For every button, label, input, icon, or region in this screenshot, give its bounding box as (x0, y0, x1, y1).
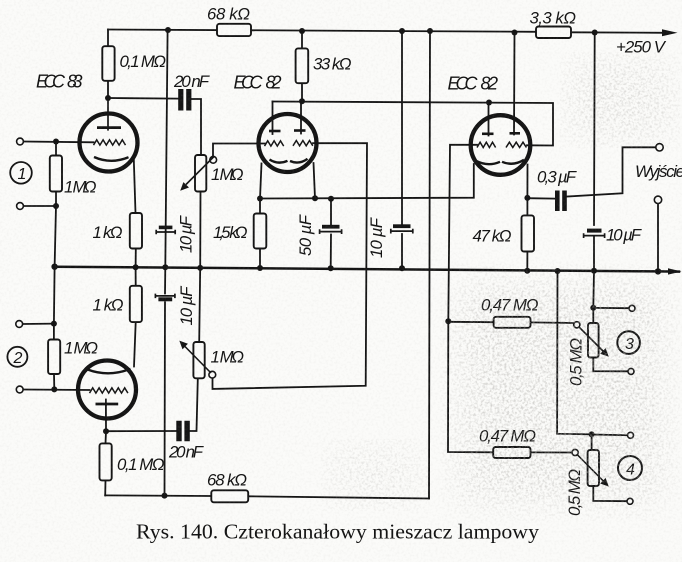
ch1 input terminal bottom (17, 203, 24, 210)
V1 cathode (94, 157, 129, 161)
wire ch2 input bottom to grid V4 (23, 389, 89, 392)
wire V3 right cathode lead (526, 165, 528, 198)
wire ch1 anode coupling: node to 20nF (108, 97, 178, 100)
resistor 0,1M ch1 (102, 46, 114, 81)
junction bus/pot1 (197, 265, 203, 271)
junction bus/1k ch1 (133, 264, 139, 270)
wire output terminal 2 to bus (657, 204, 659, 272)
node channel 3 marker (617, 331, 640, 354)
junction bus/10uF4 (591, 268, 597, 274)
wire riser 0,1M ch1 (107, 30, 109, 47)
jack3 terminal a (629, 305, 635, 311)
V4 anode (96, 399, 119, 406)
wire B+ top rail (108, 30, 536, 32)
wire ch1 input top to grid V1 (24, 141, 94, 144)
wire 1k ch1 to bus (135, 249, 137, 268)
potentiometer 0,5M no.3 body (588, 323, 599, 358)
wire riser tube V3 right anode to rail (513, 33, 516, 135)
resistor 0,47M no.1 (494, 317, 531, 328)
wire V2 left anode lead (272, 102, 274, 135)
wire ch2 input top terminal (23, 323, 54, 325)
wire 33k bottom to anode node (301, 83, 303, 101)
ch2 input terminal top (16, 321, 23, 328)
V3 grids (477, 142, 526, 147)
junction cathode rail/V2 right (312, 195, 318, 201)
junction bus/output (655, 268, 661, 274)
pot1 wiper terminal (210, 156, 217, 163)
junction V3 cathode node (524, 195, 530, 201)
node channel 1 marker (10, 162, 32, 184)
resistor 1,5k (254, 214, 267, 249)
capacitor 10uF no.1 (bracket plate) (156, 230, 175, 235)
wire pot1 bottom to bus (199, 192, 201, 268)
wire V4 anode lead (105, 406, 107, 431)
wire 10uF no.2 branch bus to bottom node (164, 267, 167, 495)
resistor 3,3k (536, 27, 571, 39)
+250V supply arrow (662, 29, 678, 36)
resistor 1M ch1 (50, 156, 62, 192)
wire ch2 anode coupling node to 20nF no.2 (106, 430, 176, 432)
resistor 47k (522, 215, 535, 251)
capacitor 50uF (bracket plate) (320, 229, 342, 234)
ch2 input terminal bottom (16, 386, 23, 393)
wire 0,1M no.2 leads (104, 431, 107, 495)
V2 grids (265, 141, 313, 147)
wire riser x594 rail to 10uF no.4 (593, 33, 596, 226)
triode V1 ECC83 envelope (80, 114, 138, 172)
double triode V3 ECC82 envelope (471, 115, 531, 175)
V2 cathodes (270, 159, 308, 163)
wire bus to pot3 top (592, 271, 595, 323)
output jack terminal 1 (656, 144, 663, 151)
wire riser 10uF no.1 from rail to bus (165, 30, 167, 267)
pot1 arrow (180, 157, 214, 191)
wire riser 33k top (301, 31, 303, 49)
wire 10uF no.4 to bus (593, 237, 595, 271)
wire 20nF no.2 to pot2 corner (190, 379, 198, 432)
jack4 terminal a (628, 432, 634, 438)
wire down to 0,47M no.2 (448, 321, 572, 452)
junction ch1 anode node (105, 95, 111, 101)
wire pot2 top to bus (199, 268, 200, 342)
junction ch2 input bottom (51, 386, 57, 392)
capacitor 0,3uF plates (555, 191, 567, 212)
node channel 4 marker (618, 456, 642, 480)
potentiometer 1M no.1 body (195, 155, 206, 192)
junction cathode rail/1,5k (257, 196, 263, 202)
wire 10uF no.3 to bus (401, 234, 403, 268)
jack4 terminal b (627, 498, 633, 504)
junction bus/10uF3 (399, 265, 405, 271)
bus right end arrow (668, 268, 682, 274)
wire V3 left anode lead (488, 103, 490, 136)
junction 0,47M node (445, 318, 451, 324)
junction ch2 input top (51, 321, 57, 327)
wire 0,47M no.1 to pot3 wiper (448, 322, 573, 323)
wire 50uF leads (330, 199, 332, 268)
potentiometer 0,5M no.4 body (588, 450, 599, 486)
wire riser x402 rail to 10uF no.3 (401, 31, 403, 225)
resistor 33k (296, 48, 309, 83)
wire ground bus (55, 267, 679, 272)
V3 anodes (482, 132, 520, 135)
pot3 arrow (579, 327, 609, 357)
junction bus/1M ch1 (51, 264, 57, 270)
junction rail/10uF4 (592, 30, 598, 36)
pot2 arrow (179, 341, 211, 373)
wire bottom 68k run (105, 495, 429, 498)
junction bottom 68k/10uF2 (162, 493, 168, 499)
triode V4 ECC83 (inverted) envelope (78, 361, 136, 419)
junction bus/pot4 riser (555, 268, 561, 274)
V1 anode (97, 98, 121, 131)
wire 1k no.2 to bus (135, 267, 137, 286)
capacitor 10uF no.1 (bar plate) (159, 226, 173, 230)
junction rail/10uF1 (165, 27, 171, 33)
capacitor 10uF no.2 (bar plate) (158, 297, 172, 301)
capacitor 10uF no.3 (bracket plate) (391, 229, 413, 234)
V4 grid (90, 388, 128, 393)
wire 1,5k leads (259, 199, 261, 269)
wire V3 cathode to 0,3uF (527, 197, 554, 199)
scan noise texture (0, 0, 1, 1)
pot4 wiper terminal (572, 449, 578, 455)
junction 33k/anode bus (299, 98, 305, 104)
node channel 2 marker (7, 347, 27, 367)
resistor 0,47M no.2 (493, 447, 530, 458)
capacitor 50uF (bar plate) (322, 225, 340, 229)
resistor 1k ch2 (130, 286, 142, 322)
junction rail/33k (299, 28, 305, 34)
resistor 1M ch2 (48, 340, 60, 375)
wire 1M ch2 riser (53, 267, 56, 340)
wire pot4 top to jack4 terminal a (592, 434, 628, 437)
wire V2 right anode lead (300, 101, 302, 133)
wire 47k leads (526, 198, 528, 271)
wire V1 cathode to 1k (134, 160, 136, 214)
junction pot3 top (590, 305, 596, 311)
junction V3 left anode (486, 100, 492, 106)
wire riser x430 rail down to bottom 68k wire (429, 31, 430, 499)
pot3 wiper terminal (574, 322, 580, 328)
wire V3 left grid down to 0,47M junction (448, 145, 477, 321)
capacitor 10uF no.4 (bracket plate) (584, 233, 605, 238)
double triode V2 ECC82 envelope (259, 114, 317, 172)
junction ch2 anode node (103, 428, 109, 434)
pot2 wiper terminal (209, 371, 216, 378)
junction rail/x402 (399, 28, 405, 34)
capacitor 20nF no.1 plates (178, 89, 191, 111)
wire V2 right grid down to pot2 wiper (213, 143, 368, 389)
capacitor 10uF no.2 (bracket plate, inverted) (155, 294, 175, 299)
V4 cathode (88, 369, 131, 374)
wire 0,3uF to output terminal 1 (567, 147, 656, 196)
wire bus to pot4 top (557, 271, 592, 450)
junction bus/1,5k (257, 265, 263, 271)
wire 0,1M ch1 to node (107, 81, 109, 99)
pot4 arrow (578, 455, 609, 487)
wire 20nF no.1 to pot1 corner (191, 99, 201, 155)
junction ch1 input bottom (53, 203, 59, 209)
junction cathode rail/50uF (328, 196, 334, 202)
wire V2 cathode rail y198 to V3 left cathode (260, 164, 474, 199)
wire pot3 top to jack3 terminal a (593, 307, 629, 309)
V3 cathodes (476, 160, 524, 164)
V2 anodes (269, 129, 306, 132)
wire mixer anode bus y102 (273, 102, 554, 146)
wire pot3 bottom to jack3 terminal b (593, 358, 627, 372)
junction bus/47k (524, 268, 530, 274)
wire ch1 input lower terminal (24, 205, 57, 207)
capacitor 20nF no.2 plates (176, 421, 189, 442)
resistor 0,1M ch2 (100, 443, 112, 480)
ch1 input terminal top (17, 138, 24, 145)
output jack terminal 2 (654, 196, 661, 203)
junction ch1 input top (53, 139, 59, 145)
jack3 terminal b (628, 368, 634, 374)
wire 1M ch1 riser (55, 142, 57, 156)
wire pot1 wiper to V2 left grid (213, 144, 266, 157)
capacitor 10uF no.3 (bar plate) (393, 224, 411, 228)
V1 grid (94, 140, 126, 145)
wire V2 right cathode lead (314, 163, 316, 198)
potentiometer 1M no.2 body (193, 342, 204, 378)
junction bus/10uF1 (162, 264, 168, 270)
resistor 68k no.2 (211, 490, 248, 502)
resistor 68k no.1 (217, 24, 251, 36)
capacitor 10uF no.4 (bar plate) (587, 229, 602, 233)
wire V2 left cathode lead (260, 164, 262, 199)
resistor 1k ch1 (130, 213, 142, 249)
junction pot4 top (589, 431, 595, 437)
wire pot4 bottom to jack4 terminal b (593, 486, 627, 501)
wire V4 cathode to 1k no.2 (134, 322, 136, 366)
junction rail/V3 anode (512, 30, 518, 36)
junction bus/50uF (328, 265, 334, 271)
junction rail/x430 (427, 28, 433, 34)
